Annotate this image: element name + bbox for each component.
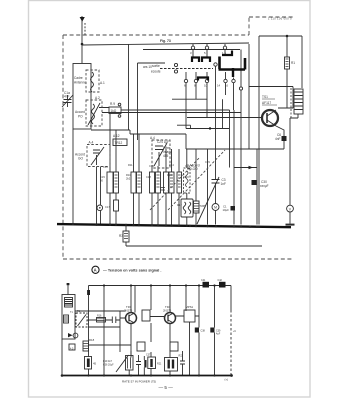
svg-text:R10: R10: [126, 173, 131, 177]
svg-text:C20: C20: [184, 175, 189, 179]
svg-text:A.12: A.12: [113, 134, 120, 138]
svg-text:C42: C42: [218, 279, 223, 282]
svg-text:R11: R11: [128, 163, 133, 167]
svg-text:A.4: A.4: [89, 141, 94, 145]
svg-text:A.4: A.4: [150, 136, 155, 140]
svg-text:2k2: 2k2: [126, 177, 131, 181]
svg-text:R14: R14: [169, 163, 174, 167]
svg-text:C17: C17: [105, 205, 110, 209]
svg-text:(+): (+): [225, 378, 229, 382]
svg-text:14: 14: [217, 84, 221, 88]
svg-text:C18: C18: [146, 175, 151, 179]
svg-text:R.9: R.9: [110, 102, 115, 106]
svg-text:C37: C37: [146, 354, 151, 357]
svg-text:C16: C16: [103, 165, 108, 169]
svg-text:ars 10: ars 10: [143, 65, 152, 69]
svg-text:16: 16: [225, 84, 229, 88]
svg-text:A.2: A.2: [95, 96, 100, 100]
svg-text:4nF: 4nF: [275, 137, 281, 141]
svg-text:C24 1µF: C24 1µF: [157, 140, 169, 144]
svg-text:AF117: AF117: [262, 101, 271, 105]
svg-text:45: 45: [93, 362, 97, 366]
svg-text:écoute: écoute: [151, 70, 161, 74]
svg-text:R3: R3: [119, 234, 123, 238]
svg-text:2N270: 2N270: [124, 309, 133, 313]
svg-text:Accord: Accord: [75, 110, 85, 114]
svg-text:sortie: sortie: [152, 64, 160, 68]
svg-text:C29: C29: [205, 160, 210, 164]
svg-text:R16: R16: [97, 315, 102, 318]
svg-text:Fig. 73: Fig. 73: [160, 39, 171, 43]
svg-text:TW8: TW8: [200, 204, 206, 208]
svg-text:M: M: [214, 205, 217, 209]
svg-text:— Tension en volts sans si: — Tension en volts sans signal .: [103, 269, 161, 273]
svg-text:A.1: A.1: [100, 81, 105, 85]
svg-text:C38: C38: [201, 330, 206, 333]
svg-text:Antenne: Antenne: [74, 81, 86, 85]
svg-text:1,5: 1,5: [222, 51, 226, 55]
svg-text:Cadre: Cadre: [74, 76, 83, 80]
svg-text:C19: C19: [149, 164, 154, 168]
svg-text:xxxµF: xxxµF: [260, 184, 269, 188]
svg-text:R21: R21: [157, 363, 162, 366]
svg-text:R22: R22: [179, 355, 184, 358]
svg-text:TR12: TR12: [115, 141, 123, 145]
svg-text:C41: C41: [201, 279, 206, 282]
svg-text:MPS1: MPS1: [186, 305, 194, 309]
svg-text:RATE 57 IN POWER (75): RATE 57 IN POWER (75): [122, 380, 156, 384]
svg-text:10: 10: [204, 84, 208, 88]
svg-text:4µF: 4µF: [216, 333, 221, 336]
svg-text:R17: R17: [177, 203, 182, 207]
svg-text:A: A: [94, 267, 97, 272]
svg-text:R1: R1: [291, 61, 295, 65]
svg-text:C15: C15: [100, 175, 105, 179]
svg-text:TS1: TS1: [262, 95, 268, 99]
svg-text:1nF: 1nF: [221, 182, 227, 186]
svg-text:R13: R13: [167, 173, 172, 177]
svg-text:1 110 100 000 0: 1 110 100 000 0: [268, 18, 292, 21]
svg-text:2N270: 2N270: [163, 309, 172, 313]
svg-text:R18: R18: [89, 338, 95, 342]
svg-text:PO: PO: [78, 115, 83, 119]
svg-text:4nF: 4nF: [64, 95, 70, 99]
svg-text:C36 20µF: C36 20µF: [103, 364, 114, 367]
svg-text:455: 455: [163, 154, 169, 158]
svg-text:1kΩ: 1kΩ: [111, 109, 117, 113]
svg-text:— 5 —: — 5 —: [159, 385, 174, 390]
svg-text:GO: GO: [78, 157, 83, 161]
svg-text:10µF: 10µF: [223, 208, 230, 212]
svg-text:C21: C21: [185, 164, 190, 168]
